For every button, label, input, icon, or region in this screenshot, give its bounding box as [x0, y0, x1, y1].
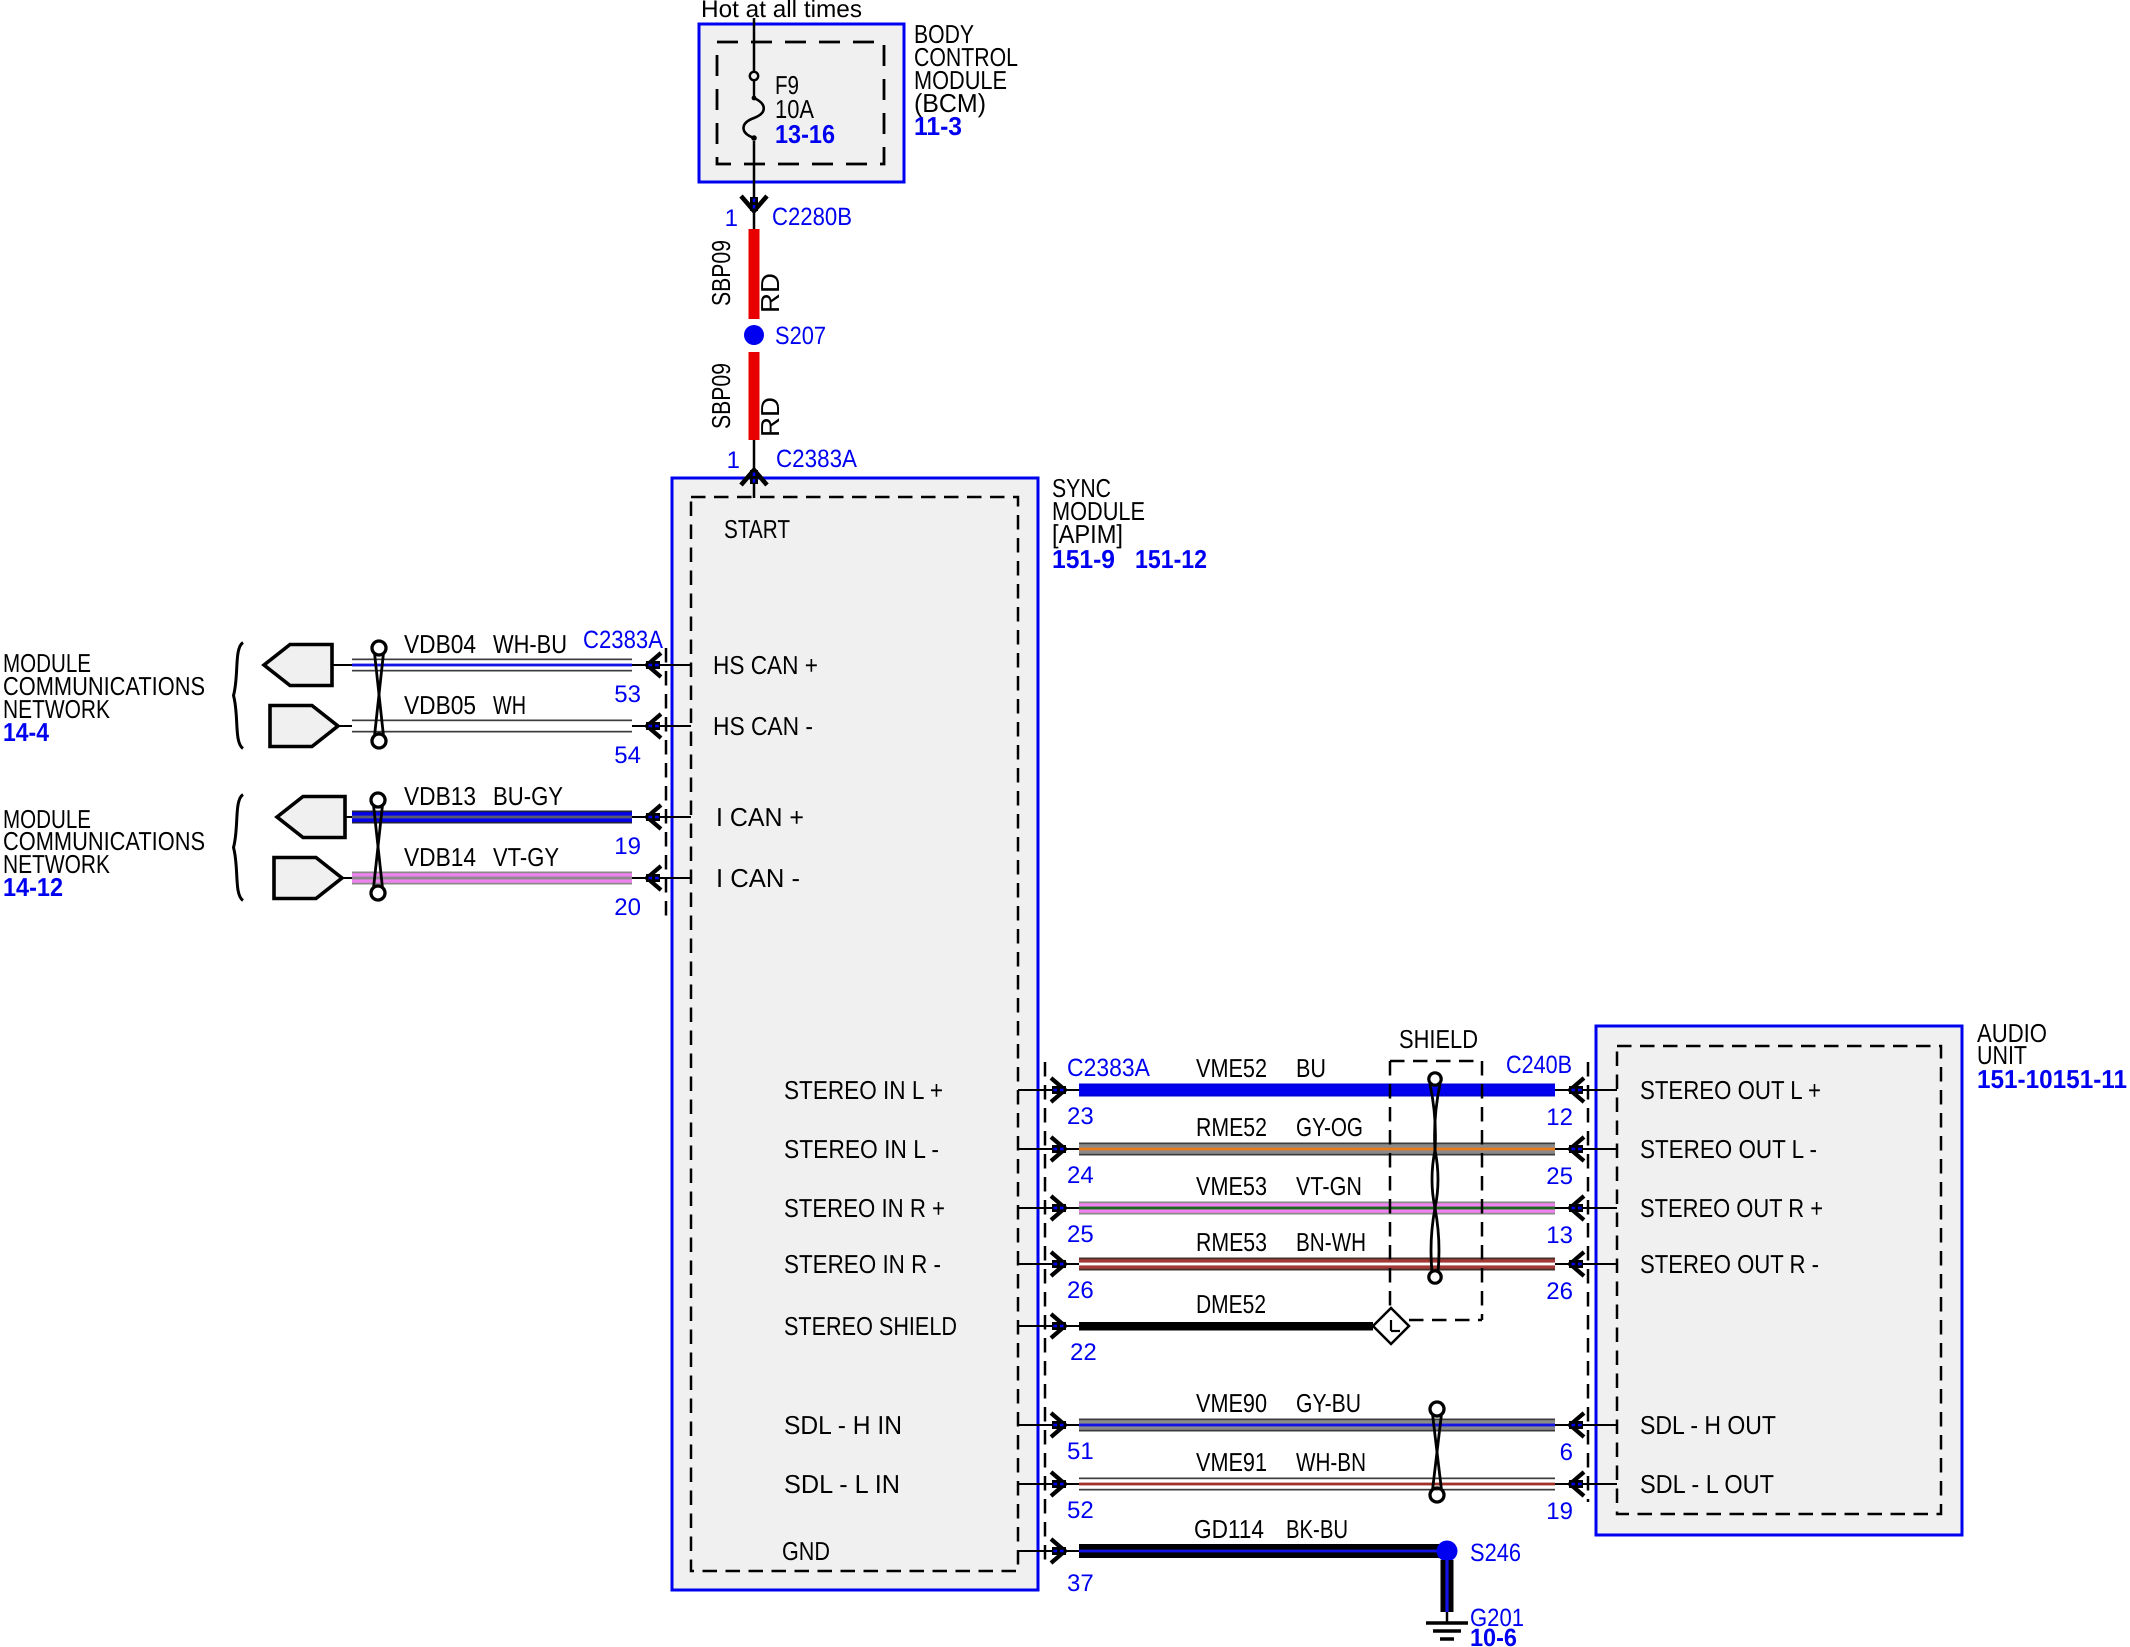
svg-text:BK-BU: BK-BU — [1286, 1514, 1348, 1544]
svg-text:14-12: 14-12 — [3, 872, 63, 902]
terminal arrow pin 26 C240B — [1570, 1252, 1584, 1276]
module box: BODY CONTROL MODULE (BCM) — [699, 24, 904, 182]
svg-text:13-16: 13-16 — [775, 119, 835, 149]
svg-text:53: 53 — [614, 681, 641, 708]
connector ring VDB13 — [277, 797, 345, 838]
terminal arrow pin 54 C2383A-left — [647, 714, 661, 738]
svg-text:STEREO OUT R -: STEREO OUT R - — [1640, 1249, 1819, 1279]
svg-text:C2383A: C2383A — [1067, 1054, 1150, 1082]
svg-text:STEREO IN L +: STEREO IN L + — [784, 1075, 943, 1105]
svg-text:VT-GY: VT-GY — [493, 842, 559, 872]
svg-text:STEREO IN R -: STEREO IN R - — [784, 1249, 941, 1279]
svg-text:VDB14: VDB14 — [404, 842, 476, 872]
svg-text:Hot at all times: Hot at all times — [701, 0, 862, 23]
connector dashed line C2383A right — [1044, 1062, 1047, 1560]
svg-text:GND: GND — [782, 1536, 830, 1566]
svg-text:I CAN +: I CAN + — [716, 802, 804, 832]
splice S246 — [1437, 1541, 1458, 1562]
svg-text:RME53: RME53 — [1196, 1227, 1267, 1257]
brace HS CAN pair — [234, 643, 244, 749]
connector ring VDB14 — [274, 858, 342, 899]
svg-text:C2280B: C2280B — [772, 203, 852, 231]
svg-text:1: 1 — [727, 447, 740, 474]
svg-text:SBP09: SBP09 — [706, 240, 736, 306]
wire VDB13 BU-GY (I CAN +) — [300, 816, 691, 818]
svg-text:BU-GY: BU-GY — [493, 781, 563, 811]
terminal arrow pin 1 C2383A top — [741, 470, 767, 485]
wire RME52 GY-OG (STEREO IN L - to STEREO OUT L -) — [1018, 1148, 1617, 1150]
svg-text:START: START — [724, 514, 790, 544]
wire VDB14 VT-GY (I CAN -) — [300, 877, 691, 879]
terminal arrow pin 13 C240B — [1570, 1196, 1584, 1220]
svg-text:24: 24 — [1067, 1162, 1094, 1189]
svg-text:GD114: GD114 — [1194, 1514, 1264, 1544]
svg-text:1: 1 — [725, 205, 738, 232]
terminal arrow pin 25 C240B — [1570, 1137, 1584, 1161]
svg-text:SDL - L IN: SDL - L IN — [784, 1469, 900, 1499]
connector ring VDB04 — [264, 645, 332, 686]
svg-text:6: 6 — [1560, 1439, 1573, 1466]
wire SBP09 RD segment 1 — [749, 229, 760, 319]
wire VDB05 WH (HS CAN -) — [300, 725, 691, 727]
terminal arrow pin 52 C2383A-right — [1051, 1472, 1065, 1496]
wire: feed into dashed box — [753, 478, 756, 498]
wire RME53 BN-WH (STEREO IN R - to STEREO OUT R -) — [1018, 1263, 1617, 1265]
svg-text:C2383A: C2383A — [583, 626, 663, 654]
twisted pair symbol I CAN — [371, 793, 385, 807]
svg-text:52: 52 — [1067, 1497, 1094, 1524]
connector dashed line C240B — [1587, 1062, 1590, 1502]
brace I CAN pair — [234, 795, 244, 901]
svg-text:STEREO SHIELD: STEREO SHIELD — [784, 1311, 957, 1341]
svg-text:SDL - H IN: SDL - H IN — [784, 1410, 902, 1440]
svg-text:RME52: RME52 — [1196, 1112, 1267, 1142]
svg-text:I CAN -: I CAN - — [716, 863, 800, 893]
ground G201 — [1426, 1621, 1468, 1625]
wire VME90 GY-BU (SDL - H IN to SDL - H OUT) — [1018, 1424, 1617, 1426]
twisted pair symbol SDL — [1430, 1402, 1444, 1416]
terminal arrow pin 22 C2383A-right — [1051, 1314, 1065, 1338]
svg-text:SDL - L OUT: SDL - L OUT — [1640, 1469, 1774, 1499]
svg-text:151-10151-11: 151-10151-11 — [1977, 1064, 2127, 1094]
svg-text:37: 37 — [1067, 1570, 1094, 1597]
svg-text:SDL - H OUT: SDL - H OUT — [1640, 1410, 1776, 1440]
connector C2280B pin 1 — [741, 196, 767, 211]
svg-text:S207: S207 — [775, 322, 826, 350]
wire SBP09 RD segment 2 — [749, 352, 760, 440]
svg-text:11-3: 11-3 — [914, 111, 962, 141]
svg-text:STEREO IN R +: STEREO IN R + — [784, 1193, 945, 1223]
terminal arrow pin 25 C2383A-right — [1051, 1196, 1065, 1220]
twisted pair symbol HS CAN — [372, 641, 386, 655]
svg-text:19: 19 — [614, 833, 641, 860]
svg-text:GY-OG: GY-OG — [1296, 1112, 1363, 1142]
svg-text:22: 22 — [1070, 1339, 1097, 1366]
svg-text:BN-WH: BN-WH — [1296, 1227, 1366, 1257]
svg-text:VDB05: VDB05 — [404, 690, 476, 720]
svg-text:10-6: 10-6 — [1470, 1624, 1517, 1647]
svg-text:STEREO OUT L +: STEREO OUT L + — [1640, 1075, 1821, 1105]
svg-text:GY-BU: GY-BU — [1296, 1388, 1361, 1418]
svg-text:STEREO IN L -: STEREO IN L - — [784, 1134, 939, 1164]
wire VME91 WH-BN (SDL - L IN to SDL - L OUT) — [1018, 1483, 1617, 1485]
svg-text:HS CAN -: HS CAN - — [713, 711, 813, 741]
svg-text:25: 25 — [1067, 1221, 1094, 1248]
svg-text:VME90: VME90 — [1196, 1388, 1267, 1418]
svg-text:26: 26 — [1546, 1278, 1573, 1305]
svg-text:25: 25 — [1546, 1163, 1573, 1190]
wire VME53 VT-GN (STEREO IN R + to STEREO OUT R +) — [1018, 1207, 1617, 1209]
terminal arrow pin 51 C2383A-right — [1051, 1413, 1065, 1437]
terminal arrow pin 6 C240B — [1570, 1413, 1584, 1437]
svg-text:13: 13 — [1546, 1222, 1573, 1249]
svg-text:C240B: C240B — [1506, 1051, 1572, 1079]
terminal arrow pin 53 C2383A-left — [647, 653, 661, 677]
svg-text:VDB13: VDB13 — [404, 781, 476, 811]
wire GD114 vertical to ground — [1441, 1560, 1454, 1612]
svg-text:54: 54 — [614, 742, 641, 769]
wire: hot feed segments — [753, 18, 756, 72]
terminal arrow pin 12 C240B — [1570, 1078, 1584, 1102]
svg-text:STEREO OUT L -: STEREO OUT L - — [1640, 1134, 1817, 1164]
module box: AUDIO UNIT — [1596, 1026, 1962, 1535]
splice S207 — [744, 325, 764, 345]
svg-text:C2383A: C2383A — [776, 445, 857, 473]
svg-text:DME52: DME52 — [1196, 1289, 1266, 1319]
wire GD114 BK-BU (GND) — [1018, 1550, 1079, 1552]
svg-text:51: 51 — [1067, 1438, 1094, 1465]
terminal arrow pin 26 C2383A-right — [1051, 1252, 1065, 1276]
terminal arrow pin 20 C2383A-left — [647, 866, 661, 890]
svg-text:VME52: VME52 — [1196, 1053, 1267, 1083]
svg-text:WH: WH — [493, 690, 526, 720]
svg-text:19: 19 — [1546, 1498, 1573, 1525]
svg-text:23: 23 — [1067, 1103, 1094, 1130]
terminal arrow pin 19 C2383A-left — [647, 805, 661, 829]
terminal arrow pin 19 C240B — [1570, 1472, 1584, 1496]
svg-text:151-12: 151-12 — [1135, 544, 1207, 574]
svg-text:STEREO OUT R +: STEREO OUT R + — [1640, 1193, 1823, 1223]
shield termination diamond — [1373, 1308, 1409, 1344]
terminal arrow pin 24 C2383A-right — [1051, 1137, 1065, 1161]
terminal arrow pin 23 C2383A-right — [1051, 1078, 1065, 1102]
svg-text:SHIELD: SHIELD — [1399, 1024, 1478, 1054]
shield dashed box — [1390, 1060, 1482, 1063]
svg-text:RD: RD — [755, 273, 785, 313]
svg-text:151-9: 151-9 — [1052, 544, 1115, 574]
connector ring VDB05 — [270, 706, 338, 747]
module box: SYNC MODULE [APIM] — [672, 478, 1038, 1590]
svg-text:VME91: VME91 — [1196, 1447, 1267, 1477]
wire DME52 (STEREO SHIELD drain) — [1018, 1325, 1079, 1327]
svg-text:20: 20 — [614, 894, 641, 921]
svg-text:SBP09: SBP09 — [706, 363, 736, 429]
svg-text:BU: BU — [1296, 1053, 1326, 1083]
svg-text:14-4: 14-4 — [3, 717, 49, 747]
svg-text:RD: RD — [755, 397, 785, 437]
svg-text:VME53: VME53 — [1196, 1171, 1267, 1201]
wire VDB04 WH-BU (HS CAN +) — [300, 664, 691, 666]
fuse F9 10A — [750, 72, 758, 80]
svg-text:S246: S246 — [1470, 1539, 1521, 1567]
svg-text:VT-GN: VT-GN — [1296, 1171, 1362, 1201]
svg-text:26: 26 — [1067, 1277, 1094, 1304]
wire VME52 BU (STEREO IN L + to STEREO OUT L +) — [1018, 1089, 1617, 1091]
svg-text:12: 12 — [1546, 1104, 1573, 1131]
shield twisted drain symbol — [1429, 1073, 1441, 1085]
svg-text:HS CAN +: HS CAN + — [713, 650, 818, 680]
connector dashed line C2383A left — [665, 648, 668, 920]
terminal arrow pin 37 C2383A-right — [1051, 1539, 1065, 1563]
svg-text:WH-BN: WH-BN — [1296, 1447, 1366, 1477]
svg-text:WH-BU: WH-BU — [493, 629, 567, 659]
svg-text:VDB04: VDB04 — [404, 629, 476, 659]
